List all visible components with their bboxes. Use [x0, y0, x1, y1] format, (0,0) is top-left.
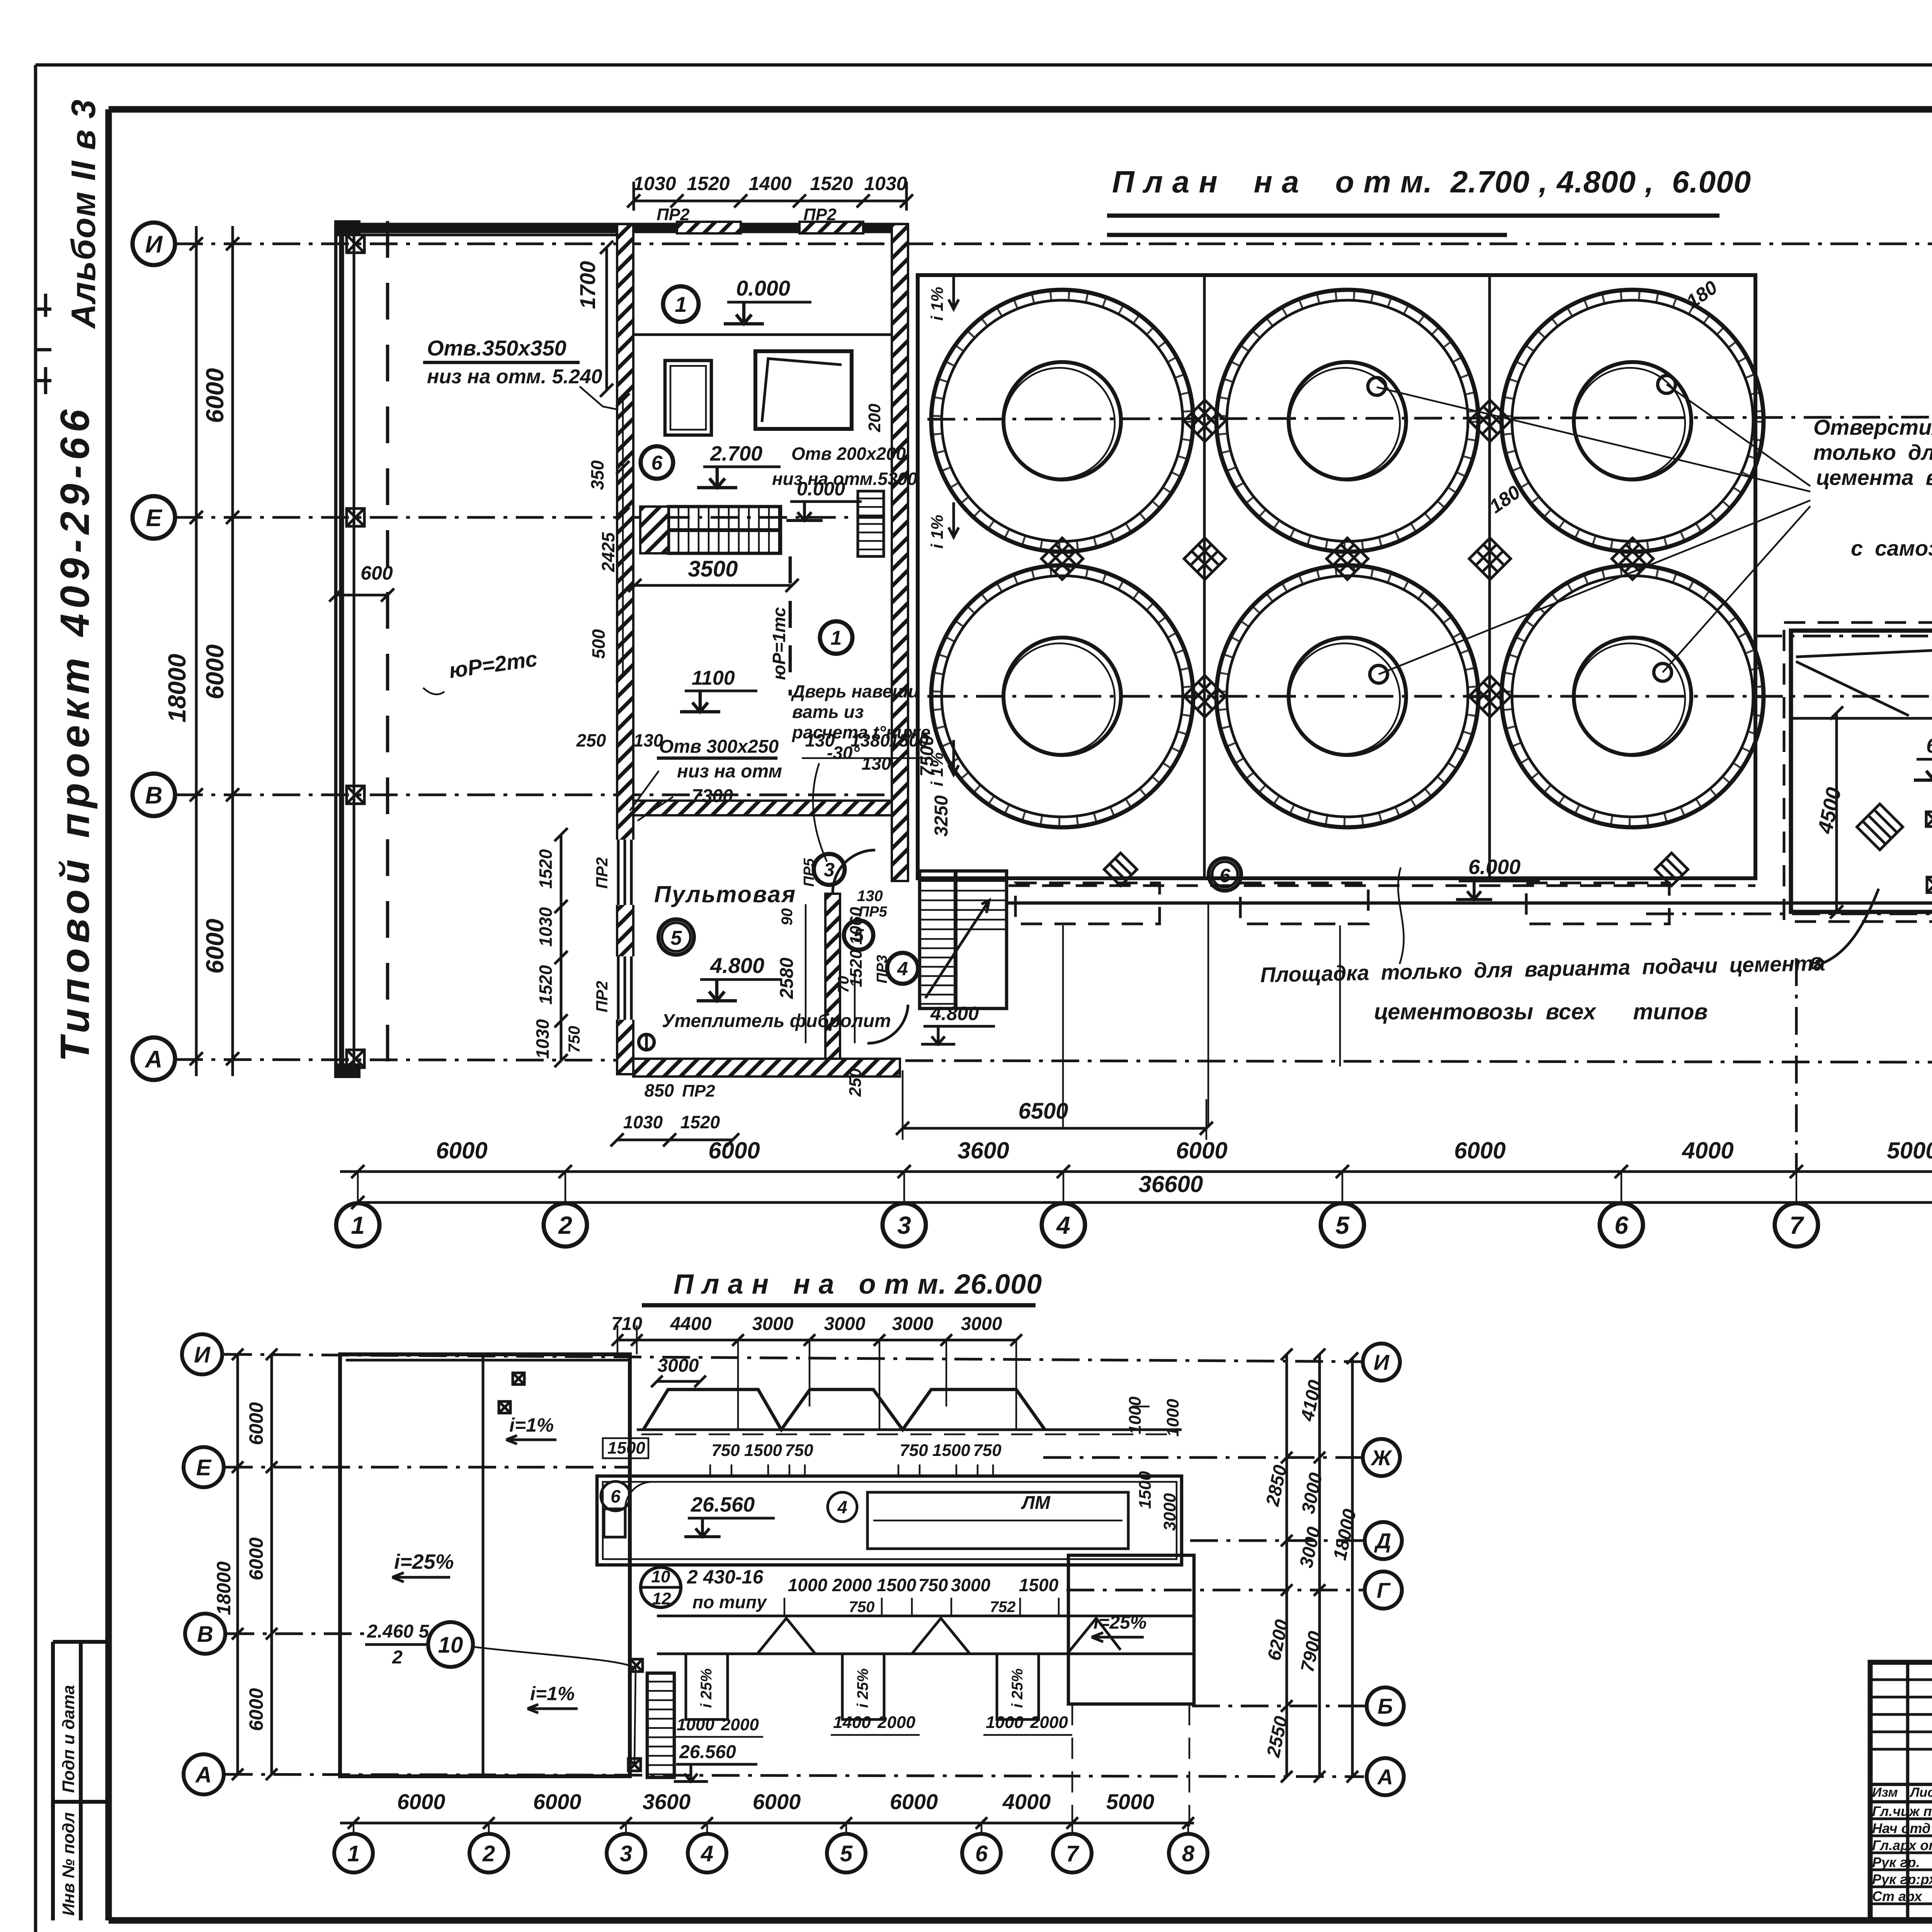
lp bubble 4 bottom [688, 1834, 726, 1872]
grid bubble 2 bottom [544, 1203, 587, 1247]
silo box inner verticals [1204, 275, 1490, 878]
door arc room3 [833, 850, 875, 893]
lp gallery outer [597, 1476, 1182, 1565]
lp bubble И left [182, 1334, 222, 1374]
entry bottom wall hatched [633, 1059, 900, 1077]
svg-text:6000: 6000 [1454, 1138, 1505, 1163]
svg-text:И: И [194, 1342, 211, 1367]
svg-text:ПР5: ПР5 [801, 858, 817, 887]
grid bubble 6 bottom [1600, 1203, 1643, 1247]
svg-text:i 1%: i 1% [928, 515, 947, 549]
svg-text:1520: 1520 [680, 1112, 720, 1132]
svg-text:2000: 2000 [1030, 1713, 1068, 1732]
svg-text:ПР2: ПР2 [593, 981, 611, 1012]
svg-text:6500: 6500 [1018, 1099, 1068, 1124]
grid line И [175, 243, 1932, 245]
revision table verticals [1908, 1662, 1932, 1920]
svg-text:1: 1 [351, 1211, 365, 1239]
grid bubble 4 bottom [1042, 1203, 1085, 1247]
svg-text:2: 2 [482, 1841, 495, 1866]
lp right dim chains [1287, 1354, 1352, 1777]
svg-text:6: 6 [611, 1486, 621, 1507]
silo A2 [1216, 290, 1478, 552]
svg-text:6000: 6000 [890, 1789, 938, 1814]
entry east wall hatched [892, 224, 908, 881]
leader lines to silo note [1377, 384, 1810, 674]
svg-text:Отв.350х350: Отв.350х350 [427, 336, 566, 360]
name rows [1870, 1819, 1932, 1904]
svg-text:1520 1060: 1520 1060 [847, 906, 866, 987]
svg-text:i=1%: i=1% [530, 1683, 575, 1704]
lp bubble 2 bottom [469, 1834, 508, 1872]
axis dash verticals below weigh house [1796, 927, 1932, 1170]
svg-text:3000: 3000 [892, 1314, 934, 1334]
svg-text:ПР2: ПР2 [682, 1082, 715, 1100]
grid line Е [175, 516, 904, 519]
svg-text:1500: 1500 [607, 1439, 645, 1458]
lp roof tabs [686, 1654, 728, 1719]
svg-text:А: А [1377, 1765, 1393, 1789]
svg-text:250: 250 [846, 1068, 865, 1097]
svg-text:8: 8 [1182, 1841, 1195, 1866]
room bubble 6 [641, 446, 673, 479]
svg-text:4400: 4400 [670, 1314, 712, 1334]
lp monitor opening [867, 1492, 1128, 1549]
grid bubble 5 bottom [1321, 1203, 1364, 1247]
svg-text:4.800: 4.800 [930, 1003, 979, 1024]
svg-text:юР=1тс: юР=1тс [769, 607, 789, 680]
svg-text:4: 4 [1056, 1211, 1070, 1239]
annex columns [347, 235, 364, 253]
lp grid line Е [225, 1466, 632, 1469]
svg-text:2.700: 2.700 [710, 442, 762, 465]
svg-text:i 25%: i 25% [1009, 1668, 1026, 1708]
svg-text:1030: 1030 [532, 1019, 553, 1059]
lp bubble Г right [1365, 1571, 1402, 1609]
svg-text:3: 3 [824, 859, 835, 881]
room bubble 5 big [658, 919, 694, 955]
svg-text:36600: 36600 [1139, 1171, 1203, 1197]
svg-text:6000: 6000 [201, 368, 229, 423]
lp grid line Б [1192, 1705, 1365, 1708]
svg-text:1000: 1000 [986, 1713, 1024, 1732]
walkway bottom edge [1007, 901, 1932, 905]
interior floor line [633, 333, 892, 336]
svg-text:6000: 6000 [1176, 1138, 1227, 1163]
svg-text:3: 3 [620, 1841, 632, 1866]
svg-text:1100: 1100 [692, 667, 735, 689]
stair upper flight [668, 507, 781, 553]
svg-text:Ж: Ж [1370, 1446, 1393, 1470]
outer border left [34, 65, 37, 1932]
svg-text:6000: 6000 [753, 1789, 801, 1814]
svg-text:750: 750 [900, 1441, 928, 1460]
silo A1 [931, 290, 1193, 552]
lp bubble И right [1363, 1344, 1400, 1381]
lp bubble Ж right [1363, 1439, 1400, 1476]
lp grid line Г [1066, 1589, 1363, 1592]
annex bottom corner [334, 1063, 361, 1078]
svg-text:Альбом II в 3: Альбом II в 3 [64, 99, 102, 329]
svg-text:1030: 1030 [633, 173, 676, 194]
svg-text:Рук гр:рх: Рук гр:рх [1872, 1871, 1932, 1887]
lp bottom chain [340, 1822, 1194, 1825]
svg-text:Отв 300х250: Отв 300х250 [659, 736, 779, 757]
outer border top [36, 63, 1932, 67]
svg-text:6000: 6000 [397, 1789, 446, 1814]
grid bubble А left [133, 1037, 175, 1080]
svg-text:3000: 3000 [1160, 1493, 1179, 1531]
svg-text:7: 7 [1066, 1841, 1080, 1866]
svg-text:3000: 3000 [951, 1575, 991, 1595]
svg-text:7: 7 [1789, 1211, 1804, 1239]
silo hopper ports (small circles) [1368, 378, 1386, 395]
svg-text:0.000: 0.000 [797, 478, 845, 500]
svg-text:6: 6 [1219, 865, 1231, 886]
svg-text:6000: 6000 [201, 919, 229, 974]
grid line А [175, 1060, 1932, 1063]
svg-text:2580: 2580 [777, 957, 797, 999]
svg-text:7300: 7300 [692, 786, 733, 806]
svg-text:ЛМ: ЛМ [1021, 1493, 1051, 1513]
svg-text:26.560: 26.560 [679, 1742, 736, 1762]
lp roof triangles [757, 1618, 1121, 1654]
weigh hatch diamond [1857, 804, 1903, 850]
lp ref bubble 10/12 [641, 1567, 681, 1607]
svg-text:3250: 3250 [931, 795, 952, 837]
top dim chain 1030 1520 1400 1520 1030 [634, 182, 906, 211]
lintel ПР2 hatched top [677, 222, 741, 233]
svg-text:3000: 3000 [752, 1314, 794, 1334]
svg-text:1520: 1520 [536, 965, 556, 1005]
svg-text:Пультовая: Пультовая [654, 881, 796, 907]
lp grid line Ж [1043, 1456, 1361, 1459]
walkway stair [920, 871, 1007, 1009]
svg-text:Дверь навеши: Дверь навеши [791, 681, 919, 701]
title block outer [1870, 1662, 1932, 1920]
svg-text:2.460 5: 2.460 5 [367, 1621, 429, 1642]
grid bubble 3 bottom [883, 1203, 926, 1247]
grid line Б [1646, 913, 1932, 915]
svg-text:в: в [1809, 949, 1823, 974]
stair flight narrow [858, 491, 884, 556]
svg-text:750: 750 [918, 1575, 948, 1595]
svg-text:3600: 3600 [643, 1789, 691, 1814]
lp left block walls [340, 1354, 630, 1776]
svg-text:5000: 5000 [1106, 1789, 1155, 1814]
walkway hatch patch 2 [1655, 853, 1688, 886]
svg-text:4: 4 [897, 958, 908, 980]
svg-text:350: 350 [587, 460, 607, 490]
svg-text:П л а н н а о т м. 26.000: П л а н н а о т м. 26.000 [673, 1269, 1042, 1300]
svg-text:3500: 3500 [688, 556, 738, 582]
svg-text:1: 1 [831, 627, 842, 650]
svg-text:Отверстия из воронок силосо: Отверстия из воронок силосов [1813, 415, 1932, 439]
grid bubble Е left [133, 496, 175, 539]
svg-text:1400: 1400 [833, 1713, 871, 1732]
svg-text:0.000: 0.000 [736, 276, 790, 300]
svg-text:Лист: Лист [1909, 1785, 1932, 1800]
svg-text:5: 5 [1335, 1211, 1350, 1239]
silo B3 [1502, 565, 1764, 827]
leader curve to weigh house [1823, 889, 1879, 963]
equipment rect B [755, 351, 852, 429]
total chain 36600 [358, 1201, 1932, 1204]
walkway bubble 6 [1209, 858, 1241, 891]
svg-text:1500: 1500 [1019, 1575, 1059, 1595]
bubble stems [358, 1172, 1932, 1203]
walkway dashed line [1009, 884, 1755, 887]
svg-text:500: 500 [588, 629, 609, 659]
lp roof funnels [643, 1389, 1045, 1430]
svg-text:2: 2 [558, 1211, 572, 1239]
annex top corner [334, 220, 361, 235]
svg-text:Б: Б [1378, 1694, 1393, 1718]
svg-text:Типовой проект 409-29-66: Типовой проект 409-29-66 [52, 405, 98, 1062]
svg-text:Нач отд: Нач отд [1872, 1820, 1930, 1836]
lp bubble 6 bottom [962, 1834, 1001, 1872]
svg-text:250: 250 [576, 730, 606, 750]
svg-text:1030: 1030 [623, 1112, 663, 1132]
grid bubble 1 bottom [336, 1203, 379, 1247]
svg-text:Гл.арх отд: Гл.арх отд [1872, 1837, 1932, 1853]
svg-text:2000: 2000 [721, 1715, 759, 1734]
svg-text:600: 600 [361, 562, 393, 584]
svg-text:6.000: 6.000 [1468, 855, 1520, 879]
svg-text:1400: 1400 [748, 173, 791, 194]
lp grid line В [226, 1633, 367, 1635]
svg-text:ПР2: ПР2 [593, 857, 611, 889]
svg-text:2 430-16: 2 430-16 [687, 1566, 764, 1588]
svg-text:И: И [145, 231, 163, 258]
grid bubble 7 bottom [1775, 1203, 1818, 1247]
lp grid line Д [1190, 1539, 1363, 1542]
svg-text:3: 3 [897, 1211, 911, 1239]
lp gallery bubble 4 [828, 1492, 857, 1522]
walkway platform dashed rects [1015, 883, 1160, 924]
silo B1 [931, 565, 1193, 827]
svg-text:Утеплитель фибролит: Утеплитель фибролит [662, 1011, 891, 1031]
lp bubble 3 bottom [607, 1834, 645, 1872]
svg-text:1500: 1500 [932, 1441, 970, 1460]
svg-text:Гл.чиж пр: Гл.чиж пр [1872, 1803, 1932, 1819]
svg-text:2000: 2000 [832, 1575, 872, 1595]
svg-text:А: А [145, 1046, 163, 1073]
svg-text:1500: 1500 [1136, 1471, 1155, 1509]
svg-text:В: В [145, 782, 163, 809]
svg-text:4: 4 [701, 1841, 713, 1866]
svg-text:Ст арх: Ст арх [1872, 1888, 1923, 1904]
svg-text:6: 6 [1614, 1211, 1628, 1239]
lp bubble 5 bottom [827, 1834, 866, 1872]
svg-text:только для варианта подачи: только для варианта подачи [1813, 440, 1932, 464]
lp bubble 8 bottom [1169, 1834, 1207, 1872]
svg-text:низ на отм. 5.240: низ на отм. 5.240 [427, 366, 602, 388]
silo B2 [1216, 565, 1478, 827]
svg-text:Рук гр.: Рук гр. [1872, 1854, 1920, 1870]
lp bubble 7 bottom [1053, 1834, 1092, 1872]
annex west wall [334, 224, 338, 1078]
entry west wall hatched [617, 224, 633, 1074]
interior wall y2075 hatched [633, 801, 892, 815]
svg-text:90: 90 [779, 908, 796, 926]
svg-text:2000: 2000 [877, 1713, 915, 1732]
svg-text:П л а н н а о т м. 2.70: П л а н н а о т м. 2.700 , 4.800 , 6.000 [1112, 165, 1751, 199]
room bubble 1 lower [820, 621, 852, 654]
svg-text:i 25%: i 25% [698, 1668, 715, 1708]
svg-text:18000: 18000 [163, 654, 191, 723]
silo A3 [1502, 290, 1764, 552]
grid line Г [927, 695, 1932, 698]
svg-text:750: 750 [785, 1441, 813, 1460]
svg-text:200: 200 [865, 403, 884, 432]
lp stair [647, 1673, 674, 1777]
svg-text:i 25%: i 25% [854, 1668, 871, 1708]
svg-text:5: 5 [671, 927, 682, 949]
room bubble 1 [663, 286, 699, 322]
svg-text:Е: Е [146, 505, 162, 531]
svg-text:6000: 6000 [436, 1138, 487, 1163]
revision header row [1870, 1784, 1932, 1802]
svg-text:1520: 1520 [687, 173, 730, 194]
svg-text:2425: 2425 [598, 532, 618, 572]
svg-text:1700: 1700 [575, 261, 600, 309]
svg-text:2: 2 [392, 1647, 403, 1668]
svg-text:1000: 1000 [788, 1575, 828, 1595]
svg-text:6000: 6000 [533, 1789, 582, 1814]
grid line Ж [927, 417, 1932, 419]
lp grid line А [225, 1774, 1364, 1777]
drain symbol [639, 1034, 654, 1050]
grid line Д [1754, 635, 1932, 638]
lp pit building [1068, 1555, 1194, 1704]
lp bubble Д right [1365, 1522, 1402, 1559]
svg-text:i=25%: i=25% [1094, 1612, 1146, 1633]
svg-text:18000: 18000 [213, 1561, 235, 1615]
svg-text:7500: 7500 [917, 735, 937, 777]
svg-text:6000: 6000 [245, 1688, 267, 1731]
lp bubble А right [1367, 1758, 1404, 1795]
svg-text:10: 10 [438, 1633, 463, 1658]
svg-text:1030: 1030 [864, 173, 907, 194]
door arc room4 [867, 1005, 908, 1043]
room bubble 4 [887, 953, 918, 984]
svg-text:6.000: 6.000 [1926, 734, 1932, 757]
partition wall vertical hatched [825, 894, 840, 1059]
svg-text:10: 10 [651, 1567, 670, 1586]
svg-text:750: 750 [973, 1441, 1002, 1460]
annex axis dashed [386, 221, 389, 1082]
margin table Подп и дата / Инв № подл [53, 1642, 109, 1920]
svg-text:Отв 200х200: Отв 200х200 [791, 444, 906, 464]
svg-text:i=1%: i=1% [509, 1414, 554, 1436]
lp bubble А left [184, 1754, 224, 1794]
lp bubble 1 bottom [334, 1834, 373, 1872]
svg-text:3000: 3000 [824, 1314, 866, 1334]
svg-text:с самозагрузкой.: с самозагрузкой. [1851, 536, 1932, 560]
svg-text:4000: 4000 [1682, 1138, 1733, 1163]
svg-text:ПР3: ПР3 [874, 955, 890, 983]
svg-text:1520: 1520 [810, 173, 853, 194]
svg-text:Г: Г [1377, 1578, 1391, 1602]
weigh small squares [1926, 812, 1932, 827]
svg-text:Подп и дата: Подп и дата [59, 1685, 78, 1793]
svg-text:130: 130 [857, 888, 883, 905]
svg-text:i 1%: i 1% [928, 287, 947, 321]
svg-text:цемента в цемечтовозы с: цемента в цемечтовозы с [1816, 465, 1932, 490]
svg-text:5: 5 [840, 1841, 853, 1866]
lp band below gallery [657, 1615, 1194, 1617]
svg-text:вать из: вать из [792, 702, 864, 722]
svg-text:1: 1 [347, 1841, 360, 1866]
lp bubble В left [185, 1614, 225, 1654]
witness verticals to chain [1063, 904, 1340, 1128]
svg-text:6000: 6000 [201, 645, 229, 699]
svg-text:710: 710 [611, 1314, 642, 1334]
svg-text:1520: 1520 [536, 849, 556, 889]
svg-text:750: 750 [565, 1026, 583, 1053]
svg-text:Е: Е [196, 1455, 212, 1480]
svg-text:1380: 1380 [850, 730, 890, 750]
svg-text:Изм: Изм [1872, 1785, 1898, 1800]
walkway hatch patch 1 [1104, 853, 1137, 886]
svg-text:4000: 4000 [1002, 1789, 1051, 1814]
lp chain stems down to roof [738, 1340, 1016, 1430]
svg-text:12: 12 [652, 1589, 671, 1608]
grid bubble И left [133, 223, 175, 265]
svg-text:4: 4 [837, 1497, 847, 1517]
svg-text:В: В [197, 1622, 213, 1647]
weigh house dashed outer [1784, 622, 1932, 922]
lp gallery door [604, 1509, 625, 1537]
svg-text:6: 6 [975, 1841, 988, 1866]
svg-text:6000: 6000 [245, 1402, 267, 1445]
lp gallery bubble 6 [601, 1481, 630, 1511]
left dim chain lines [196, 226, 233, 1076]
west wall window segments [615, 840, 635, 905]
svg-text:1500: 1500 [877, 1575, 917, 1595]
lp grid line И [224, 1354, 1362, 1362]
svg-text:Д: Д [1374, 1529, 1391, 1553]
svg-text:1: 1 [675, 292, 687, 316]
svg-text:Инв № подл: Инв № подл [59, 1812, 78, 1916]
window rect A [665, 361, 711, 435]
svg-text:низ на отм: низ на отм [677, 761, 782, 782]
main chain segments [340, 1170, 1932, 1173]
silo box outline [918, 275, 1755, 878]
svg-text:1030: 1030 [536, 907, 556, 947]
svg-text:752: 752 [990, 1599, 1016, 1616]
weigh house walls [1791, 631, 1932, 912]
svg-text:750: 750 [849, 1599, 875, 1616]
lp bubble Б right [1367, 1687, 1404, 1725]
lp bubble Е left [184, 1447, 224, 1487]
entry top wall [334, 223, 908, 233]
room bubble 3 [814, 854, 845, 885]
svg-text:6000: 6000 [245, 1537, 267, 1580]
svg-text:130: 130 [862, 753, 891, 774]
grid line В [175, 794, 904, 796]
svg-text:750: 750 [711, 1441, 740, 1460]
silo pillar hatches [1184, 400, 1225, 441]
svg-text:6000: 6000 [708, 1138, 760, 1163]
lp left dim chains [238, 1354, 272, 1776]
svg-text:850: 850 [645, 1080, 674, 1100]
svg-text:i=25%: i=25% [394, 1550, 454, 1573]
left margin revision ticks [37, 294, 51, 394]
svg-text:4.800: 4.800 [710, 953, 764, 978]
svg-text:1000: 1000 [1126, 1396, 1145, 1434]
